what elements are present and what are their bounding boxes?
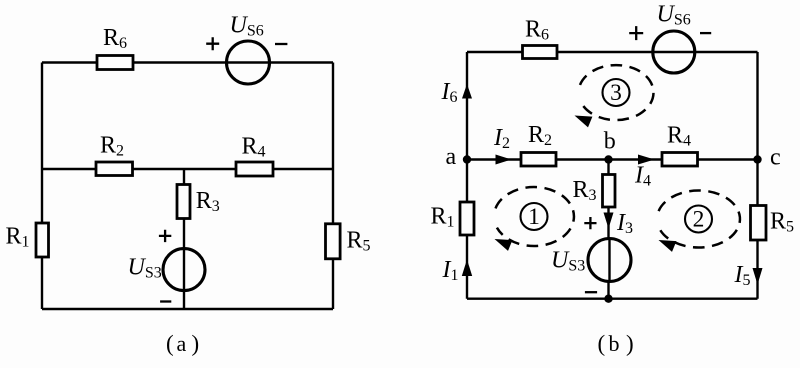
wire: (b) middle branch a-b-c horizontal: [467, 158, 758, 160]
current arrow I3: [604, 213, 614, 229]
mesh loop 1 dashed arrow: [495, 187, 574, 251]
current arrow I5: [753, 268, 763, 285]
wire: (b) bottom branch horizontal: [467, 298, 758, 300]
wire: (a) bottom branch horizontal: [42, 308, 333, 310]
current arrow I6: [462, 84, 472, 99]
wire: (b) center branch R3/US3 vertical: [607, 160, 609, 299]
svg-text:a: a: [446, 144, 457, 170]
svg-text:b: b: [609, 331, 620, 356]
current arrow I1: [462, 260, 472, 277]
resistor R5 (a): [326, 224, 341, 259]
wire: (a) top branch horizontal: [42, 61, 333, 63]
svg-text:b: b: [604, 129, 616, 155]
svg-text:(: (: [598, 331, 606, 356]
resistor R6 (a): [97, 56, 133, 70]
resistor R2 (a): [96, 162, 133, 176]
mesh current label 2 circled: [685, 206, 712, 233]
plus sign US3 (b): [584, 217, 596, 229]
minus sign US3 (a): [160, 300, 171, 302]
minus sign US3 (b): [585, 291, 597, 293]
wire: (a) right branch vertical: [332, 63, 334, 310]
mesh current label 3 circled: [603, 79, 630, 106]
mesh loop 2 dashed arrow: [659, 191, 740, 252]
minus sign US6 (b): [700, 32, 711, 34]
current arrow I4: [638, 155, 655, 165]
svg-text:2: 2: [693, 207, 705, 233]
svg-text:): ): [626, 331, 634, 356]
node a junction dot: [463, 155, 471, 163]
mesh current label 1 circled: [521, 203, 548, 230]
plus sign US3 (a): [159, 230, 171, 242]
resistor R6 (b): [523, 46, 558, 59]
resistor R4 (a): [236, 162, 273, 176]
svg-text:a: a: [177, 331, 187, 356]
minus sign US6 (a): [275, 43, 287, 45]
svg-text:1: 1: [528, 204, 540, 230]
wire: (b) left branch vertical: [466, 52, 468, 299]
voltage source US6 (a): [227, 41, 270, 84]
wire: (b) top branch horizontal: [467, 51, 758, 53]
resistor R5 (b): [751, 206, 767, 241]
wire: (b) right branch vertical: [756, 52, 758, 299]
plus sign US6 (a): [206, 37, 219, 50]
voltage source US6 (b): [653, 31, 695, 73]
wire: (a) middle branch horizontal: [42, 168, 333, 170]
resistor R4 (b): [662, 153, 698, 167]
current arrow I2: [496, 155, 512, 165]
node b junction dot: [604, 155, 612, 163]
resistor R1 (a): [36, 223, 49, 257]
wire: (a) center branch R3/US3 vertical: [183, 169, 185, 309]
svg-text:(: (: [166, 331, 174, 356]
bottom node junction dot: [604, 295, 612, 303]
resistor R3 (b): [603, 175, 616, 208]
resistor R3 (a): [177, 185, 190, 219]
plus sign US6 (b): [629, 26, 643, 40]
svg-text:c: c: [770, 145, 781, 171]
wire: (a) left branch vertical: [41, 63, 43, 310]
voltage source US3 (b): [588, 239, 631, 282]
svg-text:): ): [192, 331, 200, 356]
mesh loop 3 dashed arrow: [575, 65, 654, 127]
svg-text:3: 3: [610, 80, 622, 106]
resistor R2 (b): [521, 153, 556, 167]
node c junction dot: [753, 155, 761, 163]
resistor R1 (b): [460, 202, 474, 235]
voltage source US3 (a): [163, 249, 205, 291]
